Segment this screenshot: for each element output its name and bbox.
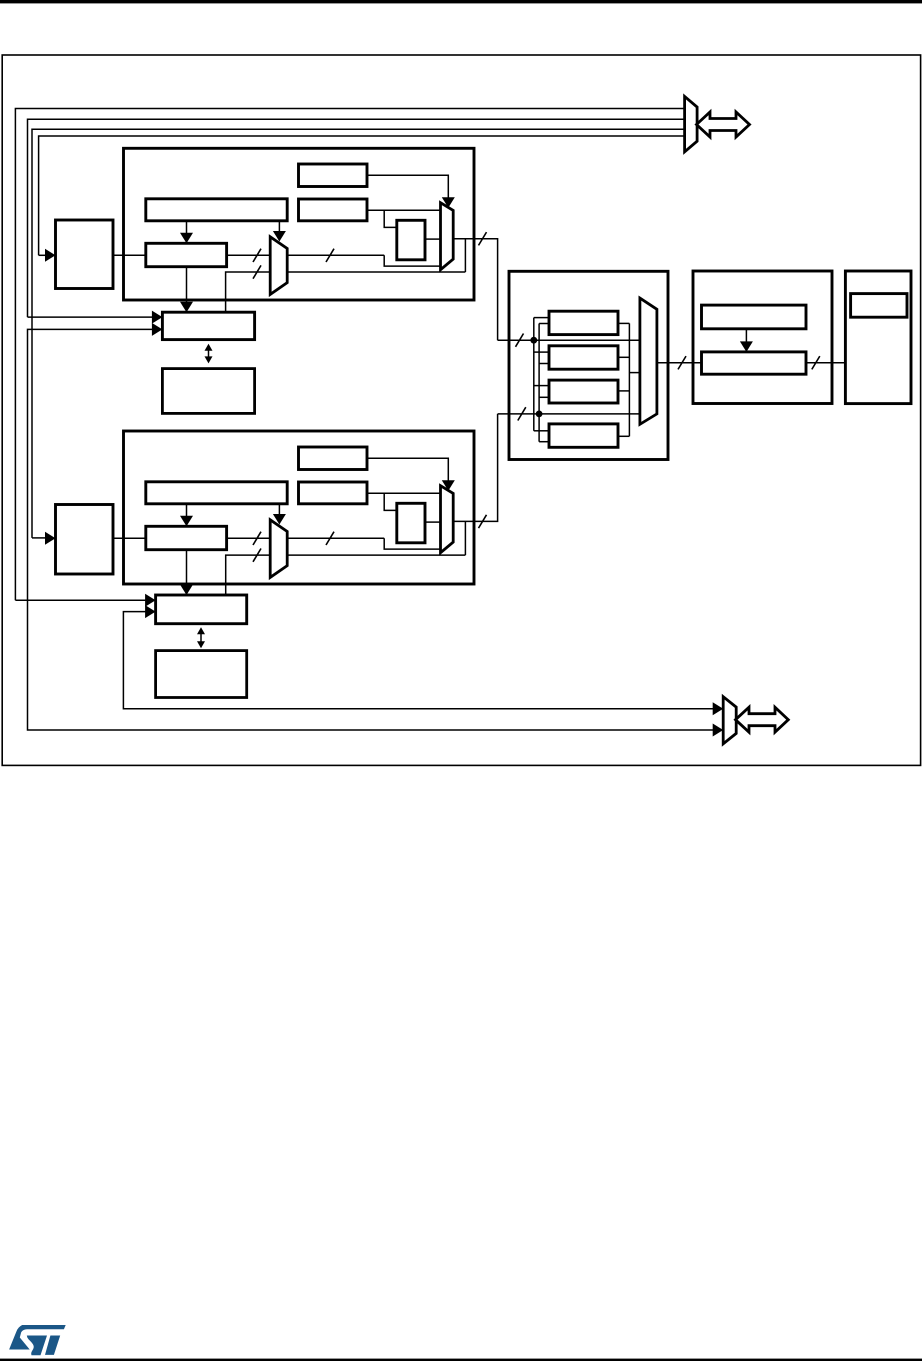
arrowhead upper long box to left mux [273,231,286,242]
upper small rect [397,220,425,259]
arrowhead 2 into bottom transceiver [713,724,724,737]
wire stub A to filter box 3 [534,385,549,387]
wire bus line 2 to upper data register [28,316,154,318]
wire stub filter box 4 to D [618,435,629,437]
wire branch lower control box to small rect [384,493,397,510]
slash lower shift box output [253,532,261,545]
wire bus line 2 top horizontal [28,119,685,317]
middle block frame [509,271,668,459]
wire branch upper control box to small rect [384,210,397,227]
top bidirectional bus arrow [697,112,750,137]
upper right mux [441,203,454,270]
upper data register box [162,312,254,339]
lower long box [146,482,287,504]
lower right mux [441,486,454,553]
upper left mux [270,237,287,295]
arrowhead right block box1 to box2 [740,341,753,352]
wire bus line 1 to lower data register [15,599,146,601]
wire lower long box to shift box arrow line [186,504,188,517]
wire lower data register line 2 riser [123,612,714,709]
wire upper data register line 2 to bottom transceiver [28,329,715,730]
wire lower right mux output [453,414,497,522]
wire upper left mux output A step to right mux [384,255,440,266]
lower left box [56,505,114,575]
wire stub A to filter box 4 [534,430,549,432]
wire bus line 4 top horizontal [39,136,685,255]
wire middle right vertical D [628,323,630,436]
lower middle small box [299,482,368,504]
wire stub filter box 1 to D [618,322,629,324]
arrowhead upper shift box to data register [180,302,193,313]
wire bus line 4 to upper left box [39,254,47,256]
right block frame [693,271,832,404]
lower small rect [397,503,425,543]
arrowhead 2 into upper data register [152,323,163,336]
far right block frame [845,271,911,404]
wire stub A to filter box 2 [534,351,549,353]
arrowhead lower shift box to data register [180,585,193,596]
wire lower top box to right mux select [367,458,448,482]
wire lower left mux output A step to right mux [384,538,440,549]
figure frame [2,55,920,765]
wire stub filter box 3 to D [618,390,629,392]
wire stub A to filter box 1 [534,317,549,319]
wire upper left box to upper shift box [113,254,146,256]
wire middle mux output [657,362,702,364]
bottom bidirectional bus arrow [736,707,789,732]
wire middle bus 2 [498,413,640,415]
filter box 4 [549,424,618,447]
lower block frame [124,431,475,584]
filter box 2 [549,346,618,369]
wire lower shift box to lower left mux input A [227,537,385,539]
filter box 3 [549,380,618,403]
junction dot bus 1 [530,337,537,344]
wire middle bus 1 [498,339,640,341]
page top rule [0,0,922,3]
junction dot bus 2 [536,411,543,418]
slash upper left mux output [326,249,334,262]
double arrow lower data register to buffer [197,627,205,648]
arrowhead 1 into lower data register [145,594,156,607]
upper data buffer box [162,369,254,414]
right block box 2 [702,352,807,374]
arrowhead upper top box to right mux [442,197,455,208]
wire lower long box to left mux select [278,504,280,515]
wire right block box1 to box2 [745,329,747,343]
slash middle bus 2 [518,407,526,420]
double arrow upper data register to buffer [205,344,213,364]
upper block frame [124,148,475,300]
arrowhead into upper left box [45,249,56,262]
wire upper control box to right mux input [367,209,441,211]
lower shift box [146,526,227,549]
slash lower riser bus [253,549,261,562]
arrowhead lower long box to shift box [180,516,193,527]
wire lower left box to lower shift box [113,537,146,539]
wire upper long box to left mux select [278,221,280,232]
arrowhead lower top box to right mux [442,480,455,491]
filter box 1 [549,311,618,334]
arrowhead 1 into bottom transceiver [713,702,724,715]
wire lower left mux output B tee to right mux output [464,521,466,555]
bottom transceiver funnel [723,697,736,744]
top transceiver funnel [685,96,698,151]
slash lower right mux output [479,515,487,528]
arrowhead 1 into upper data register [152,311,163,324]
wire middle left vertical A [533,318,535,431]
arrowhead lower long box to left mux [273,514,286,525]
slash right block output [812,356,820,369]
wire upper shift box down to data register [186,267,188,304]
slash lower left mux output [326,532,334,545]
wire lower data register riser to left mux input B [226,555,466,595]
lower data buffer box [156,651,247,698]
wire stub filter box 2 to D [618,356,629,358]
wire lower small rect to right mux [425,521,441,523]
wire bus line 1 top horizontal [15,109,684,601]
wire upper long box to shift box arrow line [186,221,188,234]
wire lower control box to right mux input [367,492,441,494]
wire lower shift box down to data register [186,550,188,587]
page bottom rule [0,1359,922,1361]
ST logo [9,1325,66,1355]
wire upper data register riser to left mux input B [226,272,466,312]
wire bus line 3 top horizontal [32,129,685,538]
wire stub B to filter box 2 [539,363,549,365]
arrowhead into lower left box [45,532,56,545]
upper long box [146,199,287,221]
arrowhead 2 into lower data register [145,605,156,618]
wire upper small rect to right mux [425,238,441,240]
lower top small box [299,447,368,470]
arrowhead upper long box to shift box [180,233,193,244]
wire upper shift box to upper left mux input A [227,254,385,256]
lower left mux [270,520,287,578]
wire stub D to middle mux [629,372,640,374]
slash upper right mux output [479,232,487,245]
wire upper right mux output [453,239,497,341]
slash upper riser bus [253,265,261,278]
wire upper top box to right mux select [367,175,448,199]
right block box 1 [702,305,807,329]
slash middle mux output [678,356,686,369]
wire upper left mux output B tee to right mux output [464,239,466,272]
wire bus line 3 to lower left box [32,537,47,539]
upper shift box [146,243,227,266]
slash upper shift box output [253,249,261,262]
wire middle left vertical B [538,324,540,442]
wire stub B to filter box 3 [539,396,549,398]
wire stub B to filter box 4 [539,441,549,443]
middle mux [640,298,657,424]
far right inner box [851,294,907,318]
wire stub B to filter box 1 [539,323,549,325]
upper middle small box [299,199,368,221]
upper top small box [299,164,368,187]
lower data register box [156,595,247,624]
upper left box [56,220,114,289]
wire right block output [806,362,845,364]
slash middle bus 1 [516,334,524,347]
